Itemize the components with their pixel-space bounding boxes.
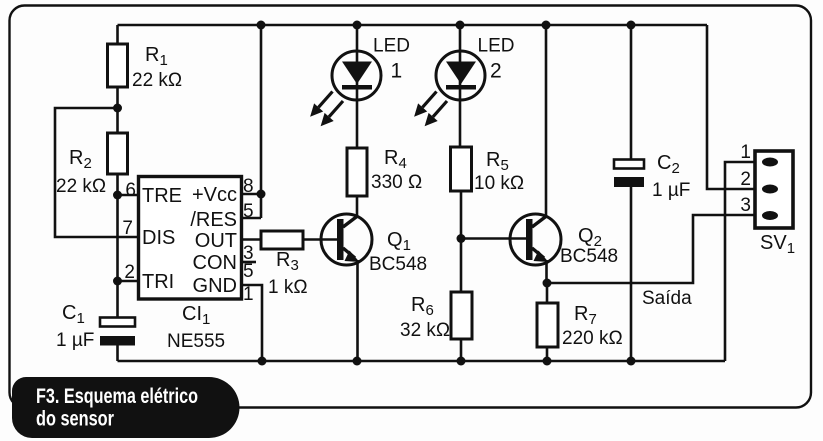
node LED1 top dot — [353, 21, 362, 30]
svg-text:1: 1 — [243, 284, 254, 305]
node R1/R2/DIS junction — [113, 104, 122, 113]
svg-text:2: 2 — [740, 169, 751, 190]
node TRE junction — [113, 191, 122, 200]
node Vcc-IC junction dot on top rail — [257, 21, 266, 30]
wire top rail — [118, 24, 708, 27]
svg-text:NE555: NE555 — [167, 331, 225, 352]
resistor R5 — [451, 147, 525, 238]
wire output Saida from Q2 emitter to SV1 pin3 — [547, 215, 755, 283]
node Vcc/RES junction — [257, 190, 266, 199]
LED1 arrow b — [321, 101, 343, 126]
node Q2 emitter / R7 / output junction — [543, 279, 552, 288]
op-amp/IC U1 NE555 body — [139, 177, 242, 353]
node TRI junction — [113, 277, 122, 286]
node R6 bottom dot — [457, 357, 466, 366]
wire top rail to SV1 pin2 — [707, 25, 755, 189]
wire Vcc vertical from top rail to /RES — [260, 25, 263, 218]
LED2 arrow a — [414, 92, 436, 117]
node R5/R6/Q2-base junction — [457, 234, 466, 243]
svg-text:OUT: OUT — [195, 230, 237, 252]
wire TRE-TRI link — [116, 195, 119, 281]
svg-text:+Vcc: +Vcc — [192, 184, 237, 206]
wire bottom ground rail — [118, 360, 726, 363]
node C2 bottom dot — [627, 357, 636, 366]
svg-text:32 kΩ: 32 kΩ — [400, 320, 450, 341]
svg-text:3: 3 — [740, 195, 751, 216]
node LED2 top dot — [456, 21, 465, 30]
svg-text:TRE: TRE — [142, 185, 182, 207]
transistor Q1 BC548 — [321, 196, 427, 361]
svg-text:2: 2 — [124, 262, 135, 283]
svg-text:1 kΩ: 1 kΩ — [268, 277, 308, 298]
svg-text:LED: LED — [373, 36, 410, 57]
pin 3 stub OUT — [242, 238, 262, 241]
svg-text:22 kΩ: 22 kΩ — [56, 176, 106, 197]
svg-text:6: 6 — [125, 180, 136, 201]
svg-text:2: 2 — [490, 60, 502, 83]
LED2 arrow b — [425, 101, 447, 126]
resistor R7 — [537, 283, 623, 361]
node Q2 collector top dot — [542, 21, 551, 30]
resistor R6 — [400, 239, 472, 362]
capacitor C2 — [614, 25, 690, 361]
caption pill F3 — [12, 377, 239, 438]
svg-text:22 kΩ: 22 kΩ — [132, 70, 182, 91]
transistor Q2 BC548 — [510, 25, 618, 283]
svg-text:10 kΩ: 10 kΩ — [474, 173, 524, 194]
pin 8 stub +Vcc — [242, 193, 262, 196]
svg-text:GND: GND — [193, 275, 237, 297]
svg-text:220 kΩ: 220 kΩ — [562, 328, 623, 349]
connector SV1 — [740, 142, 795, 257]
svg-text:7: 7 — [122, 218, 133, 239]
svg-text:TRI: TRI — [142, 271, 174, 293]
resistor R3 — [261, 231, 340, 298]
capacitor C1 — [56, 302, 135, 361]
svg-text:1 µF: 1 µF — [652, 180, 690, 201]
svg-text:BC548: BC548 — [369, 254, 427, 275]
svg-text:1 µF: 1 µF — [56, 330, 94, 351]
LED1 arrow a — [310, 92, 332, 117]
pin 5 stub CON — [242, 261, 257, 264]
LED D2 — [414, 25, 514, 147]
svg-text:1: 1 — [391, 60, 403, 83]
svg-text:Saída: Saída — [642, 288, 692, 309]
svg-text:F3. Esquema elétrico: F3. Esquema elétrico — [36, 384, 198, 408]
svg-text:1: 1 — [740, 142, 751, 163]
svg-text:do sensor: do sensor — [36, 407, 114, 431]
pin 2 stub TRI — [118, 280, 139, 283]
svg-text:330 Ω: 330 Ω — [371, 172, 422, 193]
resistor R2 — [56, 108, 128, 197]
svg-text:5: 5 — [243, 261, 254, 282]
wire TRI to C1 — [116, 281, 119, 318]
LED D1 — [310, 25, 410, 148]
resistor R4 — [347, 147, 422, 196]
wire SV1 pin1 to ground rail — [725, 162, 755, 361]
pin 1 stub GND — [242, 285, 263, 361]
node C2 top dot — [627, 21, 636, 30]
svg-text:8: 8 — [243, 176, 254, 197]
resistor R1 — [108, 25, 183, 108]
svg-text:LED: LED — [478, 36, 515, 57]
wire DIS loop — [55, 108, 138, 237]
wire junction to Q2 base — [461, 237, 529, 240]
svg-text:5: 5 — [243, 201, 254, 222]
node GND IC dot — [258, 357, 267, 366]
svg-text:/RES: /RES — [190, 209, 237, 231]
pin 6 stub TRE — [118, 194, 139, 197]
node Q1 emitter bottom dot — [353, 357, 362, 366]
svg-text:DIS: DIS — [142, 227, 175, 249]
node R7 bottom dot — [543, 357, 552, 366]
svg-text:BC548: BC548 — [560, 246, 618, 267]
svg-text:CON: CON — [193, 252, 237, 274]
pin 4 stub /RES — [242, 217, 262, 220]
